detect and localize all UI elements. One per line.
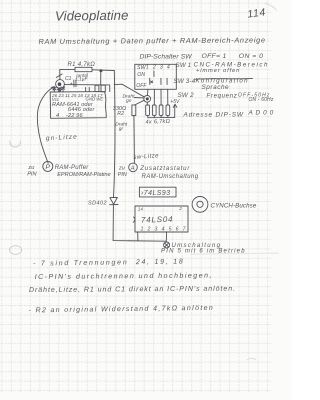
svg-text:RAM-Puffer: RAM-Puffer: [55, 165, 90, 171]
junction node circle: [144, 95, 151, 102]
svg-text:EPROM/RAM-Platine: EPROM/RAM-Platine: [57, 172, 110, 178]
svg-text:SW 1: SW 1: [176, 62, 192, 69]
resistor R1: [75, 67, 92, 71]
svg-text:Sprache: Sprache: [202, 84, 230, 91]
svg-text:PIN: PIN: [118, 172, 127, 178]
svg-text:P: P: [45, 164, 50, 171]
svg-text:+: +: [70, 82, 73, 88]
resistor R2: [132, 105, 136, 116]
node circle with dot: [56, 80, 65, 89]
svg-text:PIN 5 mit 6 im Betrieb: PIN 5 mit 6 im Betrieb: [161, 249, 246, 255]
svg-text:1 2 3 4: 1 2 3 4: [146, 65, 171, 71]
svg-text:R2: R2: [117, 111, 124, 117]
punch hole lower: [10, 246, 22, 255]
svg-text:Frequenz: Frequenz: [207, 93, 238, 99]
svg-text:SD402: SD402: [88, 201, 107, 207]
svg-text:ON: ON: [137, 72, 145, 78]
switch symbol: [164, 242, 170, 248]
wire node to R2: [135, 100, 145, 105]
brace on 74LS04 left edge: [133, 217, 135, 222]
svg-text:SW 2: SW 2: [178, 92, 195, 99]
main vertical wire right: [114, 71, 116, 198]
svg-text:GND WE: GND WE: [86, 97, 104, 102]
svg-text:114: 114: [247, 6, 267, 20]
wire R1 right to corner: [92, 69, 114, 72]
IC U2 74LS93: [139, 187, 176, 197]
wire R1 left: [60, 68, 75, 70]
diode SD402: [110, 197, 118, 204]
svg-text:gr: gr: [119, 126, 124, 132]
svg-text:14: 14: [138, 207, 144, 212]
svg-text:A D 0 0: A D 0 0: [248, 110, 274, 117]
wire branch to node2: [114, 84, 144, 97]
svg-text:DIP-Schalter SW: DIP-Schalter SW: [140, 53, 193, 60]
wire node to R1 resistor: [146, 102, 148, 105]
punch hole upper: [10, 141, 21, 148]
svg-text:PIN: PIN: [27, 172, 37, 178]
wire R2 down to node A (sw-Litze): [133, 116, 136, 164]
wire from 74LS04 pin5 down: [165, 232, 167, 241]
svg-text:ON = 0: ON = 0: [239, 53, 264, 60]
resistor network 4x 6,7kOhm: [146, 105, 150, 115]
IC U3 74LS04: [135, 206, 188, 232]
svg-text:zu: zu: [118, 166, 125, 172]
wire below diode to 74LS04: [113, 205, 166, 241]
svg-text:1,1µF: 1,1µF: [75, 76, 89, 83]
svg-text:gn: gn: [126, 99, 132, 104]
wire junction to IC pin: [100, 71, 102, 85]
wire left vertical to node: [59, 70, 61, 80]
faint smudge: [190, 253, 279, 255]
svg-text:2: 2: [178, 206, 182, 211]
svg-text:SW 3-4: SW 3-4: [174, 78, 196, 85]
svg-text:A: A: [130, 166, 135, 172]
DIP switch SW box: [135, 64, 177, 89]
svg-text:OFF= 1: OFF= 1: [202, 53, 227, 60]
node A circle: [129, 163, 138, 172]
svg-text:Drähte,Litze, R1 und C1 direkt: Drähte,Litze, R1 und C1 direkt an IC-PIN…: [29, 286, 236, 294]
DIP switch position bars: [153, 71, 155, 77]
svg-text:Adresse DIP-SW: Adresse DIP-SW: [183, 111, 244, 118]
+5V supply arrow: [174, 105, 176, 118]
svg-text:4x 6,7kΩ: 4x 6,7kΩ: [145, 119, 170, 126]
svg-text:ON - 60Hz: ON - 60Hz: [249, 97, 274, 103]
svg-text:RAM Umschaltung + Daten puffer: RAM Umschaltung + Daten puffer + RAM-Ber…: [38, 35, 265, 46]
node P circle: [43, 161, 53, 171]
svg-text:Zusatztastatur: Zusatztastatur: [139, 166, 190, 172]
cut slash mark: [56, 74, 62, 77]
wire curve from node P to node circle (arrow): [37, 87, 54, 163]
IC RAM U1: [50, 92, 106, 119]
svg-text:+5V: +5V: [170, 99, 180, 105]
svg-text:74LS04: 74LS04: [141, 215, 174, 225]
svg-text:1 2 3 4 5 6 7: 1 2 3 4 5 6 7: [141, 227, 187, 233]
svg-text:4 -22 96: 4 -22 96: [56, 113, 83, 119]
svg-text:CYNCH-Buchse: CYNCH-Buchse: [211, 203, 257, 210]
svg-text:Videoplatine: Videoplatine: [55, 8, 129, 24]
svg-text:zu: zu: [27, 165, 34, 171]
IC top pin stubs with cut marks: [54, 87, 89, 92]
svg-text:+immer offen: +immer offen: [196, 68, 240, 74]
resistor bottom bus: [148, 115, 175, 117]
wire node stub down to IC pin: [59, 88, 62, 91]
capacitor C1: [74, 80, 76, 87]
svg-text:OFF: OFF: [136, 83, 147, 89]
svg-text:›74LS93: ›74LS93: [141, 190, 171, 197]
svg-text:RAM-Umschaltung: RAM-Umschaltung: [142, 174, 199, 180]
junction dot: [99, 69, 102, 72]
IC top pin sleeves: [95, 85, 99, 91]
connector CYNCH-Buchse: [192, 197, 208, 213]
wires DIP to resistor network: [148, 89, 168, 105]
wire node to IC top corner: [64, 85, 109, 92]
page corner fold: [265, 3, 277, 10]
